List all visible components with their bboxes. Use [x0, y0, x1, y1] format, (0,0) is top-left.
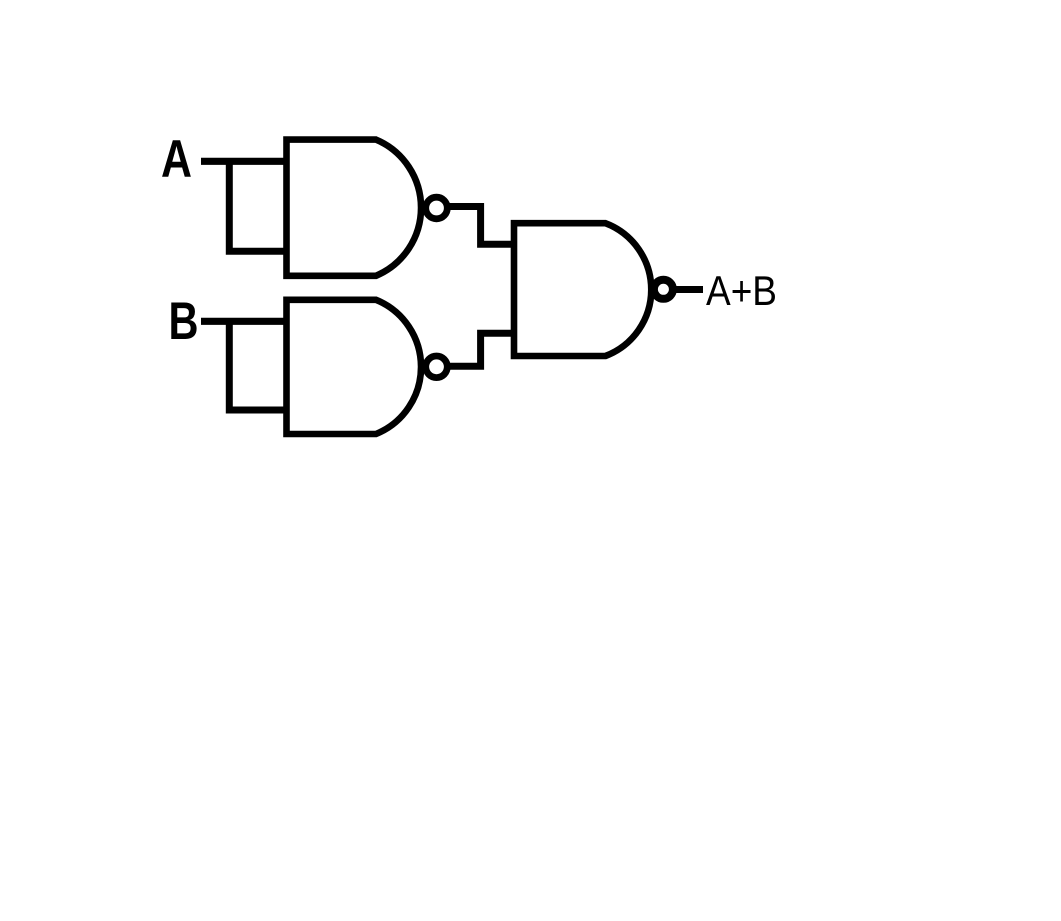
NAND gate U1 output inversion bubble: [426, 197, 448, 219]
wire from U1 bubble to NAND U2 top input: [448, 207, 515, 245]
NAND gate U1 body (inputs A,A): [287, 140, 422, 276]
NAND gate U3 body (inputs B,B): [287, 300, 422, 434]
wire from A to NAND U1 top input: [201, 158, 287, 165]
wire from B to NAND U3 top input: [201, 318, 287, 325]
svg-text:A: A: [161, 130, 192, 189]
svg-text:A+B: A+B: [706, 267, 777, 314]
wire branch tying B to NAND U3 bottom input: [229, 321, 287, 410]
wire branch tying A to NAND U1 bottom input: [229, 161, 287, 251]
NAND gate U2 output inversion bubble: [654, 280, 673, 299]
wire from U3 bubble to NAND U2 bottom input: [448, 333, 515, 366]
wire from U2 bubble to output node: [673, 286, 703, 293]
NAND gate U3 output inversion bubble: [426, 356, 448, 378]
svg-text:B: B: [169, 292, 199, 351]
NAND gate U2 body (output stage): [514, 223, 651, 356]
